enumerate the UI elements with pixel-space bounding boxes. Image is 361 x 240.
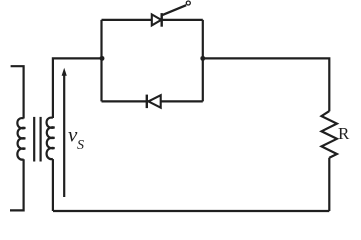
wire primary top terminal bbox=[11, 66, 24, 118]
wire primary bottom terminal bbox=[10, 159, 24, 210]
label vS bbox=[68, 122, 84, 152]
transformer T1 core bbox=[34, 117, 40, 162]
wire bridge right vertical bbox=[202, 20, 204, 102]
svg-text:R: R bbox=[338, 124, 350, 143]
wire node B to resistor bbox=[203, 58, 329, 111]
gate terminal circle bbox=[186, 1, 190, 5]
wire secondary bottom lead bbox=[52, 159, 54, 211]
wire bridge left vertical bbox=[100, 20, 102, 102]
voltage arrow vS bbox=[62, 68, 67, 197]
node A junction dot bbox=[100, 56, 105, 61]
wire resistor bottom lead bbox=[328, 158, 330, 211]
wire bottom branch bbox=[102, 100, 203, 102]
transformer T1 secondary winding bbox=[47, 118, 55, 160]
thyristor SCR bbox=[152, 5, 186, 27]
resistor R zigzag bbox=[322, 111, 337, 158]
node B junction dot bbox=[200, 56, 205, 61]
diode D1 bbox=[147, 95, 161, 109]
wire bottom return bbox=[53, 210, 329, 212]
svg-text:S: S bbox=[77, 138, 84, 153]
wire top branch bbox=[102, 19, 203, 21]
wire secondary top lead bbox=[53, 58, 102, 118]
transformer T1 primary winding bbox=[17, 118, 25, 160]
